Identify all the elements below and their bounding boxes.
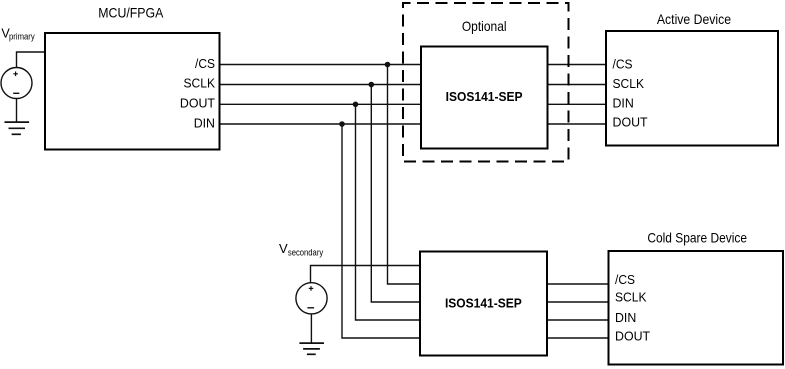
wire /CS from MCU to isolator U1 (220, 64, 422, 66)
svg-text:MCU/FPGA: MCU/FPGA (98, 5, 164, 21)
svg-text:DIN: DIN (615, 310, 636, 325)
wire /CS from isolator U1 to Active Device (548, 64, 607, 66)
svg-text:SCLK: SCLK (184, 76, 216, 91)
label Vsecondary (279, 241, 324, 258)
svg-text:DIN: DIN (613, 95, 634, 110)
junction dot DOUT (353, 102, 359, 108)
svg-text:primary: primary (9, 32, 35, 42)
svg-text:Optional: Optional (462, 18, 507, 34)
wire SCLK from isolator U1 to Active Device (548, 84, 607, 86)
junction dot SCLK (369, 82, 375, 88)
wire DIN from isolator U1 to Active Device (548, 103, 607, 105)
wire SCLK from MCU to isolator U1 (220, 84, 422, 86)
MCU/FPGA box (45, 33, 220, 150)
wire SCLK vertical drop to isolator U2 (371, 85, 420, 303)
optional dashed box (403, 3, 569, 162)
Cold Spare Device box (609, 251, 784, 365)
label Vprimary (1, 26, 35, 41)
wire Vsecondary supply to isolator U2 (311, 266, 421, 283)
svg-text:DOUT: DOUT (613, 114, 648, 129)
wire DIN from MCU to isolator U1 (220, 123, 422, 125)
voltage source Vsecondary (296, 283, 327, 314)
svg-text:/CS: /CS (615, 272, 635, 287)
ground below Vsecondary (299, 314, 324, 354)
wire Vprimary supply to MCU (17, 52, 46, 68)
Active Device box (606, 31, 778, 146)
svg-text:V: V (279, 241, 288, 256)
svg-text:ISOS141-SEP: ISOS141-SEP (446, 90, 523, 104)
wire DIN vertical drop to isolator U2 (342, 124, 421, 338)
wire DOUT from isolator U2 to Cold Spare Device (547, 337, 610, 339)
ground below Vprimary (5, 99, 30, 135)
svg-text:SCLK: SCLK (613, 76, 645, 91)
wire DOUT vertical drop to isolator U2 (356, 104, 421, 320)
svg-text:Active Device: Active Device (657, 11, 731, 27)
svg-text:Cold Spare Device: Cold Spare Device (647, 230, 747, 246)
junction dot DIN (339, 121, 345, 127)
svg-text:DOUT: DOUT (615, 328, 650, 343)
wire /CS vertical drop to isolator U2 (388, 65, 421, 285)
isolator U2 ISOS141-SEP box (420, 252, 547, 356)
isolator U1 ISOS141-SEP box (421, 47, 548, 149)
wire /CS from isolator U2 to Cold Spare Device (547, 283, 610, 285)
wire SCLK from isolator U2 to Cold Spare Device (547, 301, 610, 303)
voltage source Vprimary (1, 68, 32, 99)
wire DIN from isolator U2 to Cold Spare Device (547, 319, 610, 321)
svg-text:secondary: secondary (288, 248, 324, 258)
svg-text:DOUT: DOUT (180, 96, 215, 111)
svg-text:SCLK: SCLK (615, 290, 647, 305)
junction dot /CS (385, 62, 391, 68)
wire DOUT from isolator U1 to Active Device (548, 123, 607, 125)
wire DOUT from MCU to isolator U1 (220, 103, 422, 105)
svg-text:/CS: /CS (613, 56, 633, 71)
svg-text:ISOS141-SEP: ISOS141-SEP (445, 296, 522, 310)
svg-text:/CS: /CS (195, 56, 215, 71)
svg-text:DIN: DIN (194, 115, 215, 130)
